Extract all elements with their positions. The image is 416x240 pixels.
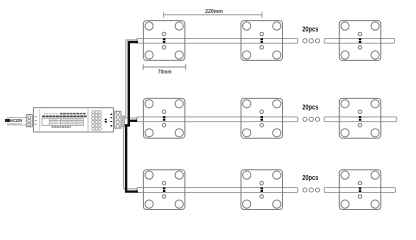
svg-text:20pcs: 20pcs <box>302 26 318 33</box>
svg-text:20pcs: 20pcs <box>302 105 318 112</box>
svg-text:70mm: 70mm <box>158 70 172 76</box>
svg-text:AC220V: AC220V <box>11 118 23 123</box>
svg-text:20pcs: 20pcs <box>302 175 318 182</box>
svg-text:220mm: 220mm <box>205 9 223 15</box>
